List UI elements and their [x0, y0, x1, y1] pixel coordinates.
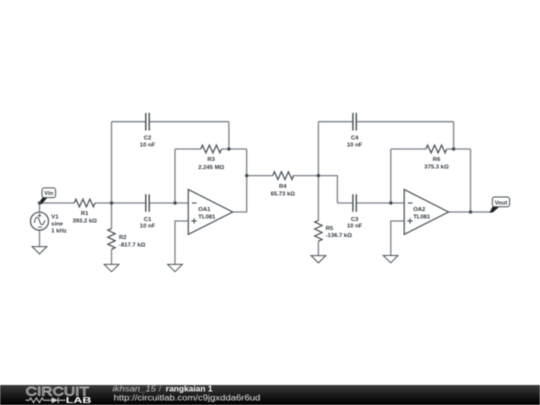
- node B: R1/R2/C1/C2 junction: [110, 201, 113, 204]
- resistor R4: [273, 172, 294, 180]
- node: OA1 inverting input junction: [173, 201, 176, 204]
- wire: C3 row into OA2: [337, 202, 404, 204]
- wire: C2 feedback row: [112, 122, 229, 149]
- svg-text:OA1: OA1: [198, 207, 211, 213]
- wire: main input row stage 1: [40, 202, 189, 204]
- svg-text:ikhsan_15: ikhsan_15: [113, 384, 157, 393]
- capacitor C3: [353, 194, 356, 212]
- svg-text:10 nF: 10 nF: [140, 142, 156, 148]
- resistor R1: [74, 199, 95, 207]
- svg-text:C3: C3: [351, 217, 359, 223]
- wire: R3 feedback row: [175, 149, 247, 203]
- resistor R5: [315, 220, 322, 241]
- svg-text:OA2: OA2: [413, 207, 426, 213]
- wire: V1 vertical stubs: [39, 203, 41, 247]
- wire: C4 feedback row: [318, 122, 453, 149]
- svg-text:R6: R6: [433, 157, 441, 163]
- node: OA1 output / R4 branch: [245, 174, 248, 177]
- node: OA2 output / R6 junction: [469, 210, 472, 213]
- svg-text:C4: C4: [351, 136, 359, 142]
- svg-text:393.2 kΩ: 393.2 kΩ: [73, 218, 98, 224]
- svg-text:10 nF: 10 nF: [347, 224, 363, 230]
- svg-text:R2: R2: [119, 235, 127, 241]
- flag Vout: [490, 197, 510, 213]
- svg-text:rangkaian 1: rangkaian 1: [166, 384, 213, 393]
- voltage source V1: [31, 212, 49, 230]
- resistor R2: [108, 229, 115, 250]
- svg-text:sine: sine: [51, 222, 64, 228]
- svg-text:R1: R1: [81, 211, 89, 217]
- svg-text:http://circuitlab.com/c9jgxdda: http://circuitlab.com/c9jgxdda6r6ud: [114, 394, 261, 403]
- flag Vin: [39, 188, 56, 205]
- svg-text:R4: R4: [279, 184, 287, 190]
- node: C2/R3 junction: [227, 147, 230, 150]
- capacitor C2: [146, 113, 149, 131]
- wire: node B vertical up to C2 row and down to R2: [111, 122, 113, 265]
- node C: R4/R5/C3/C4 junction: [317, 174, 320, 177]
- ground (OA2 +): [383, 256, 398, 263]
- svg-text:10 nF: 10 nF: [140, 224, 156, 230]
- svg-text:1 kHz: 1 kHz: [51, 229, 66, 235]
- wire: node C verticals and step to C3 row: [318, 122, 337, 256]
- ground (R2): [104, 264, 119, 271]
- resistor R6: [426, 145, 447, 153]
- svg-text:375.3 kΩ: 375.3 kΩ: [424, 165, 449, 171]
- svg-text:2.245 MΩ: 2.245 MΩ: [198, 165, 224, 171]
- ground (OA1 +): [168, 264, 183, 271]
- capacitor C4: [353, 113, 356, 131]
- svg-text:-817.7 kΩ: -817.7 kΩ: [119, 243, 146, 249]
- svg-text:R3: R3: [207, 157, 215, 163]
- ground (R5): [311, 256, 326, 263]
- svg-text:-136.7 kΩ: -136.7 kΩ: [326, 233, 353, 239]
- wire: OA2 output to Vout: [449, 149, 491, 212]
- svg-text:Vout: Vout: [495, 200, 508, 206]
- op-amp OA1: [188, 190, 232, 235]
- svg-text:V1: V1: [51, 214, 59, 220]
- svg-text:10 nF: 10 nF: [347, 142, 363, 148]
- node: Vin junction: [38, 201, 41, 204]
- svg-text:65.73 kΩ: 65.73 kΩ: [271, 191, 296, 197]
- ground (V1): [32, 247, 47, 254]
- logo squiggle: wire + resistor + diode: [26, 397, 66, 403]
- wire: OA1 output and feedback vertical: [233, 149, 247, 212]
- wire: OA1 plus input to ground: [175, 221, 188, 264]
- op-amp OA2: [404, 190, 448, 235]
- node: OA2 inverting input junction: [389, 201, 392, 204]
- svg-text:TL081: TL081: [198, 214, 216, 220]
- svg-text:C1: C1: [144, 217, 152, 223]
- svg-text:Vin: Vin: [44, 191, 53, 197]
- svg-text:C2: C2: [144, 136, 152, 142]
- svg-text:R5: R5: [326, 226, 334, 232]
- node: C4/R6 junction: [452, 147, 455, 150]
- svg-text:TL081: TL081: [413, 214, 431, 220]
- wire: OA2 plus input to ground: [391, 221, 404, 256]
- wire: R4 row: [247, 175, 319, 177]
- wire: R6 feedback row: [391, 149, 471, 203]
- resistor R3: [201, 145, 222, 153]
- capacitor C1: [146, 194, 149, 212]
- svg-text:LAB: LAB: [66, 396, 92, 405]
